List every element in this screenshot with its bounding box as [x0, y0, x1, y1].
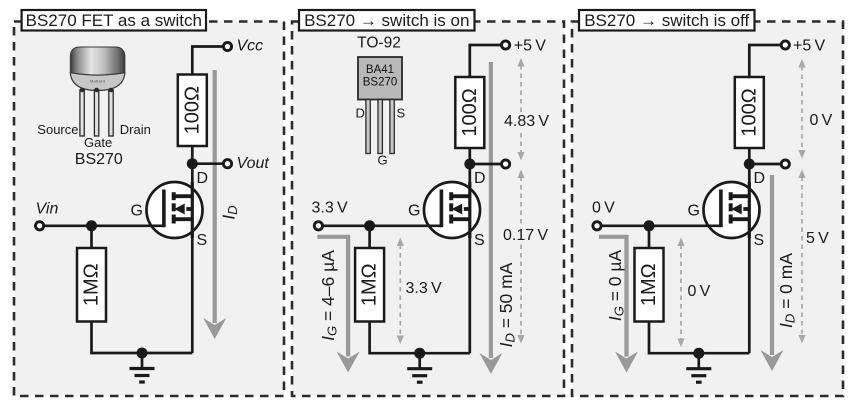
wire drain to +5V terminal (panel 3) — [749, 45, 785, 77]
svg-text:D: D — [754, 170, 766, 187]
svg-text:S: S — [474, 232, 485, 249]
ground (panel 1) — [130, 353, 155, 382]
title: BS270 switch is off — [579, 10, 755, 31]
voltage arrow 0 V across 1M — [677, 238, 684, 348]
svg-text:BS270 FET as a switch: BS270 FET as a switch — [26, 11, 202, 30]
terminal +5V (panel 3) — [781, 41, 789, 49]
svg-text:100Ω: 100Ω — [181, 86, 203, 134]
wire input to gate (panel 3) — [597, 224, 721, 227]
junction gate node (panel 3) — [644, 220, 655, 231]
resistor 100 ohm (panel 3) — [735, 77, 764, 148]
wire drain to Vcc terminal — [192, 47, 227, 75]
panel 1 border — [14, 22, 284, 397]
terminal input 0V — [593, 222, 601, 230]
label 0.17 V — [501, 226, 551, 243]
svg-text:S: S — [397, 106, 406, 121]
title: BS270 switch is on — [299, 10, 475, 31]
junction ground node (panel 3) — [693, 348, 704, 359]
svg-text:3.3 V: 3.3 V — [406, 280, 442, 297]
wire bottom rail (panel 2) — [370, 322, 470, 354]
junction gate node (panel 2) — [364, 220, 375, 231]
svg-text:S: S — [754, 232, 765, 249]
junction gate node — [86, 220, 97, 231]
svg-text:3.3 V: 3.3 V — [312, 200, 348, 217]
junction drain node (panel 2) — [464, 159, 475, 170]
svg-text:BS270 → switch is on: BS270 → switch is on — [304, 11, 469, 30]
current arrow ID = 0 mA (panel 3) — [761, 175, 784, 371]
MOSFET Q2 (BS270, panel 2) — [424, 182, 480, 238]
wire gate node to 1M resistor — [90, 226, 93, 248]
wire gate node to 1M (panel 3) — [648, 226, 651, 248]
svg-text:G: G — [688, 203, 700, 220]
svg-text:1MΩ: 1MΩ — [81, 263, 103, 306]
voltage arrow 5 V — [798, 170, 805, 344]
current arrow IG = 0 uA (panel 3) — [599, 237, 638, 373]
wire drain-source vertical (panel 2) — [468, 148, 471, 353]
voltage arrow 4.83 V — [517, 58, 524, 161]
junction drain node (panel 3) — [744, 159, 755, 170]
wire drain-source vertical — [191, 146, 194, 353]
svg-text:BS270: BS270 — [75, 151, 123, 168]
svg-text:S: S — [197, 232, 208, 249]
panel 3 border — [572, 22, 843, 397]
svg-text:100Ω: 100Ω — [459, 88, 481, 136]
TO-92 legs — [366, 100, 394, 154]
package legs — [80, 88, 114, 136]
wire to Vout terminal — [192, 162, 227, 165]
wire Vin to gate — [40, 224, 164, 227]
resistor 1 Mohm (panel 1) — [77, 248, 106, 322]
svg-text:Vcc: Vcc — [237, 38, 264, 55]
svg-text:G: G — [131, 203, 143, 220]
voltage arrow 0 V across 100 ohm — [798, 59, 805, 159]
svg-text:+5 V: +5 V — [514, 38, 546, 55]
svg-text:BS270 → switch is off: BS270 → switch is off — [584, 11, 749, 30]
wire to output terminal (panel 3) — [749, 163, 785, 166]
svg-text:Drain: Drain — [120, 122, 151, 137]
wire to output terminal (panel 2) — [470, 163, 506, 166]
voltage arrow 3.3 V across 1M — [397, 238, 404, 345]
svg-text:100Ω: 100Ω — [738, 88, 760, 136]
terminal +5V (panel 2) — [502, 41, 510, 49]
svg-text:D: D — [197, 170, 209, 187]
current arrow ID = 50 mA (panel 2) — [479, 62, 502, 374]
wire bottom rail (panel 1) — [92, 322, 193, 354]
junction drain node — [187, 158, 198, 169]
junction ground node (panel 2) — [414, 348, 425, 359]
resistor 100 ohm (panel 2) — [455, 77, 484, 148]
wire input to gate (panel 2) — [318, 224, 441, 227]
ground (panel 2) — [407, 353, 432, 382]
MOSFET Q3 (BS270, panel 3) — [704, 182, 760, 238]
resistor 1 Mohm (panel 3) — [635, 248, 664, 322]
terminal Vin — [36, 222, 44, 230]
terminal Vout — [223, 160, 231, 168]
svg-text:BA41: BA41 — [366, 64, 394, 76]
svg-text:1MΩ: 1MΩ — [359, 263, 381, 306]
svg-text:+5 V: +5 V — [793, 38, 825, 55]
svg-text:Mullard: Mullard — [90, 79, 105, 84]
svg-text:G: G — [378, 153, 388, 168]
terminal input 3.3V — [314, 222, 322, 230]
svg-text:0 V: 0 V — [592, 200, 615, 217]
wire bottom rail (panel 3) — [649, 322, 749, 354]
svg-text:1MΩ: 1MΩ — [638, 263, 660, 306]
svg-text:5 V: 5 V — [806, 230, 829, 247]
terminal Vout (panel 2) — [502, 160, 510, 168]
svg-text:Source: Source — [37, 122, 78, 137]
svg-text:4.83 V: 4.83 V — [504, 113, 549, 130]
MOSFET Q1 (BS270, panel 1) — [147, 182, 203, 238]
wire gate node to 1M (panel 2) — [368, 226, 371, 248]
ground (panel 3) — [686, 353, 711, 382]
TO-92 package front view — [358, 57, 402, 100]
svg-text:Gate: Gate — [84, 135, 112, 150]
terminal Vcc — [223, 42, 231, 50]
resistor 100 ohm (panel 1) — [178, 75, 207, 147]
resistor 1 Mohm (panel 2) — [355, 248, 384, 322]
wire drain to +5V terminal (panel 2) — [470, 45, 506, 77]
svg-text:D: D — [474, 170, 486, 187]
panel 2 border — [292, 22, 564, 397]
voltage arrow 0.17 V — [517, 170, 524, 344]
svg-text:TO-92: TO-92 — [357, 35, 401, 52]
junction ground node (panel 1) — [137, 348, 148, 359]
svg-text:Vin: Vin — [36, 201, 59, 218]
svg-text:BS270: BS270 — [363, 77, 398, 89]
current arrow ID (panel 1) — [203, 70, 226, 339]
svg-text:Vout: Vout — [237, 155, 270, 172]
svg-text:D: D — [356, 106, 365, 121]
terminal Vout (panel 3) — [781, 160, 789, 168]
label 4.83 V — [502, 112, 552, 129]
svg-text:0 V: 0 V — [810, 112, 833, 129]
svg-text:G: G — [408, 203, 420, 220]
title: BS270 FET as a switch — [22, 10, 206, 31]
svg-text:0.17 V: 0.17 V — [503, 227, 548, 244]
svg-text:0 V: 0 V — [688, 283, 711, 300]
current arrow IG = 4-6 uA (panel 2) — [317, 237, 359, 373]
wire drain-source vertical (panel 3) — [748, 148, 751, 353]
BS270 TO-92 package 3D drawing — [70, 47, 125, 91]
